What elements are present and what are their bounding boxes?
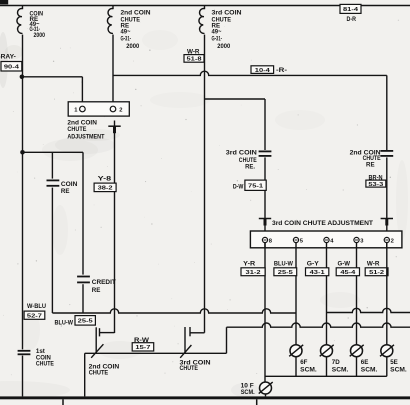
wire A lower: [264, 243, 266, 383]
wire label box 15-7: [132, 343, 154, 351]
label 2nd COIN CHUTE ADJUSTMENT: [67, 119, 104, 140]
wire mid horizontal: [23, 151, 84, 153]
svg-text:CHUTE: CHUTE: [36, 360, 54, 367]
wire stub below bus left: [62, 399, 64, 405]
svg-text:CHUTE: CHUTE: [67, 126, 86, 133]
svg-text:81-4: 81-4: [343, 7, 359, 13]
wire E upper: [386, 75, 388, 150]
wire terminal 1 drop: [81, 77, 83, 103]
wire COIN RE contact lower: [51, 188, 53, 313]
svg-text:2: 2: [119, 108, 122, 114]
svg-text:W-BLU: W-BLU: [27, 303, 46, 310]
wire L3 upper: [204, 6, 206, 10]
wire 7D stem: [326, 357, 328, 377]
switch contact CREDIT RE: [77, 277, 90, 283]
svg-text:15-7: 15-7: [135, 345, 151, 351]
label 1st COIN CHUTE: [36, 348, 54, 367]
svg-text:CREDIT: CREDIT: [92, 279, 116, 286]
wire branch 3rd RE: [205, 98, 266, 100]
connector 5E SCM: [380, 345, 394, 357]
svg-text:51-2: 51-2: [369, 270, 385, 276]
label 6E SCM: [361, 359, 378, 373]
label 2nd COIN CHUTE switch: [89, 363, 120, 376]
wire C lower: [326, 243, 328, 345]
wire E through box: [386, 237, 388, 248]
label 6F SCM: [300, 359, 317, 373]
wire label box 75-1: [245, 180, 266, 190]
svg-text:SCM.: SCM.: [361, 367, 378, 374]
svg-text:53-3: 53-3: [368, 182, 384, 188]
label 3rd COIN CHUTE switch: [180, 360, 212, 372]
connector 10F SCM: [259, 382, 273, 394]
wire 5E stem: [386, 357, 388, 377]
wire label box 25-5: [75, 316, 95, 326]
wire switch output: [85, 352, 227, 354]
wire L1 to bus: [22, 356, 24, 397]
svg-text:RE: RE: [366, 161, 375, 168]
wire 10F to bus: [265, 394, 267, 396]
switch contact 1st COIN CHUTE: [18, 351, 31, 355]
svg-text:38-2: 38-2: [98, 186, 114, 192]
svg-text:43-1: 43-1: [310, 270, 326, 276]
terminal 2: [110, 106, 122, 113]
svg-text:G-31-: G-31-: [212, 35, 223, 42]
label CREDIT RE: [92, 279, 116, 294]
switch contact 2nd COIN CHUTE RE: [380, 151, 393, 156]
label 3rd COIN CHUTE RE 49 G-31 2000: [212, 10, 243, 51]
relay coil 3rd COIN CHUTE RE: [199, 9, 205, 34]
label 2nd COIN CHUTE RE 49 G-31 2000: [121, 10, 152, 51]
svg-text:RE: RE: [92, 287, 101, 294]
wire L1 upper: [22, 6, 24, 10]
svg-text:Y-8: Y-8: [98, 176, 112, 183]
label 10F SCM: [241, 382, 255, 396]
svg-text:RE.: RE.: [245, 163, 255, 170]
terminal 2 of 3rd adjustment: [384, 237, 394, 244]
svg-text:90-4: 90-4: [4, 64, 20, 70]
label COIN RE: [61, 181, 78, 195]
wire top supply bus: [0, 5, 410, 7]
connector 6E SCM: [350, 345, 364, 357]
wire label box 53-3: [366, 180, 386, 188]
wire E mid: [386, 157, 388, 237]
svg-text:CHUTE: CHUTE: [180, 365, 199, 372]
svg-text:ADJUSTMENT: ADJUSTMENT: [67, 133, 104, 140]
wire switch2 bend: [100, 332, 115, 334]
connector 3rd COIN CHUTE ADJUSTMENT box: [250, 231, 402, 248]
label 2nd COIN CHUTE RE right: [350, 149, 382, 168]
wire branch 10-4: [113, 71, 387, 75]
svg-text:6E: 6E: [361, 359, 369, 366]
svg-text:25-5: 25-5: [78, 319, 94, 325]
label 3rd COIN CHUTE RE: [226, 150, 258, 171]
connector 2nd COIN CHUTE ADJUSTMENT box: [68, 102, 129, 116]
svg-text:GRAY-: GRAY-: [0, 53, 16, 60]
plug symbol terminal 8: [259, 219, 271, 226]
svg-text:BLU-W: BLU-W: [55, 319, 74, 326]
wire output riser: [226, 327, 228, 353]
wire L3 lower: [204, 35, 206, 333]
svg-text:Y-R: Y-R: [243, 261, 256, 268]
switch contact 3rd COIN CHUTE RE: [259, 151, 272, 156]
svg-text:2: 2: [391, 239, 394, 245]
svg-text:52-7: 52-7: [27, 313, 43, 319]
wire L1 lower: [22, 35, 24, 350]
wire label box 43-1: [306, 268, 329, 276]
wire bus lower: [227, 323, 410, 327]
wire label box 90-4: [1, 62, 22, 72]
wire 6E stem: [356, 357, 358, 377]
wire A upper: [264, 99, 266, 150]
wire bus right segment: [327, 308, 410, 312]
svg-text:31-2: 31-2: [246, 270, 262, 276]
svg-text:51-8: 51-8: [187, 57, 203, 63]
wire label box 51-2: [365, 268, 388, 276]
svg-text:75-1: 75-1: [248, 183, 264, 189]
wire L2 lower: [112, 35, 114, 107]
wire branch to terminal 1: [23, 76, 83, 78]
switch 3rd COIN CHUTE: [180, 327, 191, 358]
node junction L1 branch1: [20, 75, 25, 80]
label 7D SCM: [332, 359, 349, 373]
relay coil 2nd COIN CHUTE RE: [107, 9, 113, 34]
svg-text:G-Y: G-Y: [307, 261, 320, 268]
wire A through box: [264, 237, 266, 248]
wire COIN RE contact upper: [51, 152, 53, 178]
plug symbol 2nd adjustment: [108, 126, 120, 133]
wire output drop to bus: [84, 353, 86, 396]
label COIN RE 49 G-31 2000: [30, 10, 46, 39]
wire switch3 bend: [190, 332, 205, 334]
corner registration mark: [0, 0, 8, 4]
svg-text:6F: 6F: [300, 359, 307, 366]
wire stub below bus right: [256, 399, 258, 405]
svg-text:D-R: D-R: [347, 16, 357, 23]
wire plug line: [114, 121, 116, 334]
wire label box 25-5 bottom: [274, 268, 297, 276]
wire CREDIT RE upper: [82, 152, 84, 274]
svg-text:2000: 2000: [217, 43, 231, 50]
terminal 4: [324, 237, 334, 244]
svg-text:COIN: COIN: [61, 181, 78, 188]
relay coil COIN RE: [17, 9, 23, 34]
wire D lower: [356, 243, 358, 345]
node junction L1 mid: [20, 150, 25, 155]
wire CREDIT RE lower: [82, 284, 84, 313]
svg-text:-R-: -R-: [276, 67, 287, 74]
wire E lower: [386, 243, 388, 345]
svg-text:SCM.: SCM.: [390, 367, 407, 374]
svg-text:BLU-W: BLU-W: [274, 261, 293, 268]
connector 6F SCM: [289, 345, 303, 357]
terminal 5: [293, 237, 303, 244]
wire A mid: [264, 157, 266, 237]
connector 7D SCM: [320, 345, 334, 357]
svg-text:3rd COIN CHUTE ADJUSTMENT: 3rd COIN CHUTE ADJUSTMENT: [272, 220, 373, 227]
wire bus BLU-W: [52, 309, 296, 313]
wire label box 38-2: [94, 183, 116, 192]
wire label box 45-4: [336, 268, 359, 276]
switch 2nd COIN CHUTE: [91, 327, 103, 358]
svg-text:SCM.: SCM.: [332, 367, 349, 374]
label 5E SCM: [390, 359, 407, 373]
svg-text:SCM.: SCM.: [241, 389, 255, 396]
wire label box 10-4: [251, 66, 274, 74]
svg-text:CHUTE: CHUTE: [89, 370, 109, 377]
wire L2 upper: [112, 6, 114, 10]
svg-text:W-R: W-R: [367, 261, 380, 268]
label 81-4 box: [340, 4, 361, 13]
svg-text:G-W: G-W: [338, 261, 351, 268]
wire 6F stem: [295, 357, 297, 377]
svg-text:G-31-: G-31-: [121, 35, 132, 42]
svg-text:2000: 2000: [126, 43, 140, 50]
svg-text:10-4: 10-4: [255, 68, 271, 74]
wire B lower: [295, 243, 297, 345]
terminal 1: [74, 106, 85, 113]
svg-text:2000: 2000: [34, 32, 46, 39]
svg-text:3rd COIN: 3rd COIN: [226, 150, 258, 157]
wire label box 52-7: [24, 311, 45, 319]
wire SCM common: [265, 375, 387, 377]
svg-text:SCM.: SCM.: [300, 367, 317, 374]
wire bottom ground bus: [0, 396, 410, 399]
svg-text:25-5: 25-5: [278, 270, 294, 276]
wire label box 51-8: [184, 55, 204, 63]
terminal 8: [262, 237, 272, 244]
svg-text:45-4: 45-4: [340, 270, 356, 276]
plug symbol terminal 2: [381, 219, 393, 226]
svg-text:7D: 7D: [332, 359, 340, 366]
wire label box 31-2: [241, 268, 265, 276]
svg-text:5E: 5E: [390, 359, 398, 366]
svg-text:D-W: D-W: [233, 184, 244, 191]
svg-text:RE: RE: [61, 188, 70, 195]
terminal 3: [354, 237, 364, 244]
switch contact COIN RE: [47, 180, 60, 185]
